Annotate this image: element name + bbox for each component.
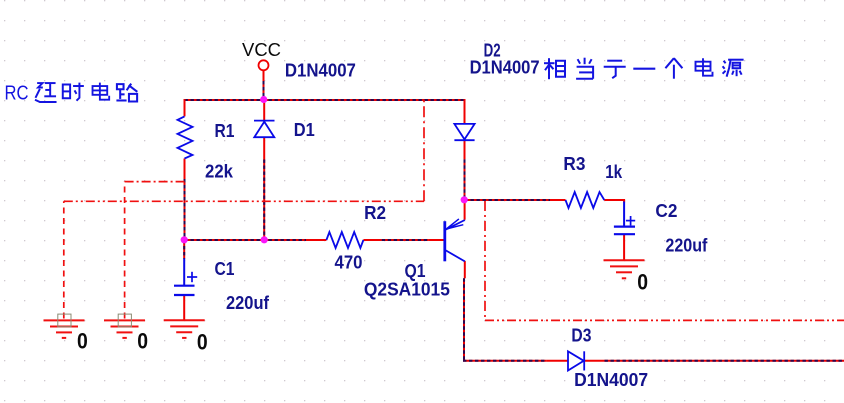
wire R3 right pin to C2 corner (red): [604, 200, 624, 203]
junction dot at D2/emitter node: [461, 196, 468, 203]
net dash-dot line from emitter row down and right to edge: [485, 201, 844, 320]
svg-text:D1N4007: D1N4007: [574, 370, 648, 390]
wire C2 top pin (blue): [623, 202, 625, 227]
wire Q1 emitter pin (red): [464, 199, 466, 220]
note glyph yuan2: [723, 60, 744, 77]
wire D3 row to right edge: [605, 360, 844, 362]
title glyph lu4: [116, 84, 137, 102]
wire D3 anode pin (red): [546, 360, 568, 362]
svg-text:R3: R3: [563, 154, 585, 174]
wire emitter row to R3: [465, 199, 551, 201]
capacitor C1: [174, 272, 197, 295]
ground 0 symbol under C2: [604, 260, 645, 278]
wire C1 top pin (blue): [183, 259, 185, 286]
wire R2 left pin (red): [306, 239, 326, 241]
svg-text:VCC: VCC: [242, 40, 281, 60]
wire R3 left pin (red): [550, 199, 566, 201]
svg-text:470: 470: [335, 253, 363, 273]
wire C1 bottom to ground (red): [183, 295, 185, 320]
wire D1 top pin (red): [263, 99, 265, 121]
wire base row left segment: [185, 239, 307, 241]
title glyph dian4: [93, 83, 110, 100]
svg-text:1k: 1k: [605, 162, 623, 182]
wire D3 cathode pin (red): [584, 360, 604, 362]
ground 1 pin box: [58, 314, 71, 327]
ground 2 pin box: [118, 314, 131, 327]
svg-text:C1: C1: [215, 259, 235, 279]
junction dot at D1/base row node: [261, 236, 268, 243]
diode D2: [454, 124, 474, 140]
junction dot at VCC bus: [260, 96, 267, 103]
svg-text:0: 0: [197, 330, 208, 355]
resistor R2: [326, 232, 363, 248]
ground 0 symbol under C1: [164, 320, 205, 338]
VCC power symbol: [259, 60, 269, 70]
wire C2 bottom to ground (red): [623, 235, 625, 261]
svg-text:220uf: 220uf: [665, 235, 708, 255]
wire D2 top pin (red): [464, 99, 466, 124]
wire C1 top from junction: [183, 240, 185, 259]
transistor Q1: [445, 219, 465, 262]
svg-text:0: 0: [637, 270, 648, 295]
svg-text:22k: 22k: [205, 161, 234, 181]
title glyph yan2: [35, 83, 57, 102]
note glyph dang1: [576, 58, 593, 79]
net dash-dot line from ground 2 up and across to R1 net: [125, 182, 185, 319]
wire collector down to D3 row: [463, 278, 465, 361]
wire R2 right pin (red): [363, 239, 381, 241]
svg-text:D1N4007: D1N4007: [285, 60, 356, 80]
svg-text:0: 0: [77, 328, 88, 353]
resistor R1: [178, 116, 193, 158]
note glyph xiang1: [544, 58, 565, 79]
svg-text:Q1: Q1: [405, 261, 426, 281]
wire VCC pin to bus junction: [263, 70, 265, 99]
svg-text:0: 0: [137, 328, 148, 353]
ground 0 symbol left 2: [104, 320, 145, 338]
note glyph ge4: [665, 58, 682, 78]
svg-text:R1: R1: [215, 121, 235, 141]
note glyph yi1: [633, 68, 655, 70]
wire R1 top pin (red): [184, 99, 186, 116]
resistor R3: [566, 192, 605, 208]
diode D3: [568, 351, 584, 370]
title glyph shi2: [63, 83, 84, 101]
capacitor C2: [614, 216, 635, 234]
wire D3 row left segment: [463, 360, 546, 362]
ground 0 symbol left 1: [44, 320, 85, 338]
net dash-dot line from ground 1 up and across to D2 branch: [64, 100, 424, 319]
svg-text:D3: D3: [571, 325, 591, 345]
wire D1 bottom pin (red): [263, 137, 265, 159]
svg-text:C2: C2: [655, 201, 677, 221]
wire Q1 base pin (red): [429, 239, 445, 241]
note glyph yu2: [604, 61, 626, 78]
svg-text:RC: RC: [5, 82, 29, 104]
wire Q1 collector pin (red): [464, 261, 466, 278]
junction dot at R1/C1 node: [181, 236, 188, 243]
svg-text:D1N4007: D1N4007: [470, 58, 540, 78]
wire R2 to Q1 base: [382, 239, 429, 241]
wire D2 to emitter junction: [464, 159, 466, 200]
wire top bus from R1 to D2 branch: [185, 99, 465, 101]
svg-text:220uf: 220uf: [226, 293, 270, 313]
svg-text:Q2SA1015: Q2SA1015: [364, 279, 450, 299]
wire R1 to node junction: [184, 179, 186, 240]
diode D1: [254, 121, 275, 138]
wire D2 bottom pin (red): [464, 140, 466, 159]
wire D1 to base row: [263, 160, 265, 241]
svg-text:R2: R2: [364, 203, 386, 223]
svg-text:D1: D1: [294, 120, 315, 140]
note glyph dian4: [696, 58, 713, 75]
wire R1 bottom pin (red): [184, 159, 186, 180]
